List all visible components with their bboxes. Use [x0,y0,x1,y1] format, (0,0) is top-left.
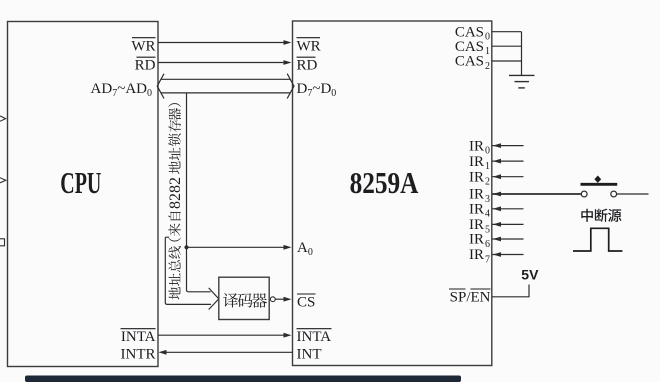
svg-text:CAS: CAS [455,54,484,70]
wire IR2 [493,176,524,178]
svg-text:IR: IR [469,247,484,263]
bus open arrow into decoder [209,288,219,310]
CPU box [8,22,159,367]
svg-text:IR: IR [469,187,484,203]
svg-text:CS: CS [297,294,315,310]
wire IR7 [493,254,524,256]
wire IR1 [493,160,524,162]
wire INTA [158,334,285,336]
interrupt pulse waveform [573,228,622,251]
svg-text:IR: IR [469,154,484,170]
wire IR6 [493,238,524,240]
svg-text:5V: 5V [521,267,539,283]
svg-text:8259A: 8259A [350,167,420,201]
wire right of switch [617,193,649,195]
wire CS [275,298,284,300]
svg-text:INTA: INTA [121,329,156,345]
wire INT to INTR [165,351,293,353]
CPU pin INTA label [121,329,156,345]
label 中断源 [581,209,621,222]
8259A pin WR label [297,38,321,55]
8259A pin CS label [297,294,316,310]
wire address bus branch vertical [187,93,211,292]
8259A pin INTA label [297,329,332,345]
svg-text:1: 1 [485,161,490,172]
address bus vertical label 地址总线(来自8282地址锁存器) [167,103,184,299]
wire CAS common vertical [521,32,523,76]
svg-text:IR: IR [469,202,484,218]
switch button diamond [594,176,601,183]
decoder label 译码器 [223,293,267,308]
wire A0 [187,246,285,248]
svg-text:IR: IR [469,138,484,154]
svg-text:WR: WR [297,39,321,55]
wire SP/EN to 5V [492,285,529,297]
svg-text:IR: IR [469,232,484,248]
wire IR4 [493,208,524,210]
left edge small box (cropped) [0,239,5,246]
svg-text:3: 3 [485,194,490,205]
wire IR3 [493,193,582,195]
CPU pin RD label [135,57,156,73]
switch right contact [611,191,617,197]
switch bar [581,183,618,186]
svg-text:IR: IR [469,217,484,233]
CPU pin WR label [131,38,155,55]
svg-text:INTA: INTA [297,329,332,345]
decoder output bubble [270,297,275,302]
svg-text:D7~D0: D7~D0 [297,81,337,99]
svg-text:6: 6 [485,239,490,250]
wire IR5 [493,223,524,225]
ground symbol [509,75,535,88]
svg-text:RD: RD [135,58,156,74]
junction dot A0 branch [184,245,188,249]
svg-text:RD: RD [297,58,318,74]
svg-text:INT: INT [297,346,322,362]
wire CAS2 [492,60,522,62]
svg-text:7: 7 [485,254,490,265]
svg-text:0: 0 [485,146,490,157]
svg-text:CPU: CPU [60,166,101,200]
wire IR3 to switch done above; switch left contact [581,191,587,197]
svg-text:IR: IR [469,169,484,185]
bus AD7~AD0 / D7~D0 double arrow [157,74,294,99]
8259A box [293,21,492,366]
wire CAS0 [492,31,522,33]
8259A pin RD label [297,57,318,73]
svg-text:8282: 8282 [167,177,184,209]
wire address second line [165,237,211,304]
svg-text:4: 4 [485,209,490,220]
bottom bar artifact [25,376,461,382]
left edge bus arrow 2 (cropped) [0,178,6,183]
svg-text:SP/EN: SP/EN [450,289,491,305]
svg-text:AD7~AD0: AD7~AD0 [91,81,152,99]
svg-text:CAS: CAS [455,39,484,55]
svg-text:INTR: INTR [121,346,156,362]
wire RD [158,62,285,64]
svg-text:2: 2 [485,177,490,188]
left edge bus arrow 1 (cropped) [0,116,6,121]
wire CAS1 [492,45,522,47]
decoder box [219,277,269,319]
svg-text:2: 2 [485,61,490,72]
8259A pin SP/EN label [449,289,491,305]
svg-text:WR: WR [131,39,155,55]
wire WR [158,42,285,44]
wire IR0 [493,145,524,147]
svg-text:1: 1 [485,46,490,57]
svg-text:5: 5 [485,224,490,235]
svg-text:0: 0 [485,32,490,43]
